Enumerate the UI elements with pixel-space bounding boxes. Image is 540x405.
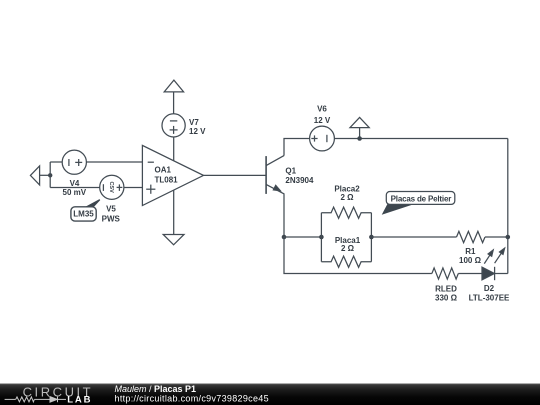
- voltage source V6 12 V: [310, 104, 335, 150]
- svg-text:50 mV: 50 mV: [63, 188, 87, 197]
- wire block to R1: [371, 236, 456, 238]
- resistor R1 100 Ohm: [457, 231, 486, 265]
- svg-text:LM35: LM35: [73, 210, 94, 219]
- svg-text:V7: V7: [189, 118, 199, 127]
- svg-text:TL081: TL081: [155, 175, 179, 184]
- svg-text:330 Ω: 330 Ω: [435, 293, 458, 302]
- power flag VCC (top): [164, 80, 183, 92]
- svg-text:RLED: RLED: [435, 285, 457, 294]
- resistor RLED 330 Ohm: [432, 268, 458, 303]
- wire block right bracket: [370, 213, 372, 262]
- node A junction dot: [48, 173, 52, 177]
- voltage source V4 50 mV: [62, 150, 87, 197]
- voltage source V7 12 V: [162, 114, 206, 137]
- svg-text:Placas de Peltier: Placas de Peltier: [391, 194, 452, 203]
- wire V6 to right rail: [334, 138, 507, 140]
- wire vertical at node A: [49, 162, 51, 188]
- annotation LM35: [71, 200, 100, 221]
- resistor Placa2 2 Ohm: [321, 184, 371, 218]
- junction dot block left: [319, 235, 324, 240]
- logo schematic glyph: [5, 397, 66, 403]
- LED D2 LTL-307EE: [469, 248, 510, 302]
- svg-text:OA1: OA1: [155, 165, 172, 174]
- svg-text:CSV: CSV: [108, 181, 114, 193]
- svg-text:12 V: 12 V: [314, 116, 331, 125]
- wire op-amp V- pin to ground: [173, 190, 175, 234]
- svg-text:Q1: Q1: [285, 166, 296, 175]
- svg-text:100 Ω: 100 Ω: [459, 256, 482, 265]
- svg-text:2 Ω: 2 Ω: [340, 193, 354, 202]
- svg-text:D2: D2: [484, 284, 495, 293]
- svg-text:2N3904: 2N3904: [285, 176, 314, 185]
- power flag VCC (near V6): [350, 117, 369, 138]
- svg-text:2 Ω: 2 Ω: [341, 244, 355, 253]
- svg-text:V6: V6: [317, 104, 327, 113]
- resistor Placa1 2 Ohm: [321, 236, 371, 267]
- svg-text:PWS: PWS: [102, 215, 121, 224]
- footer bar: [0, 384, 540, 405]
- wire Q1 emitter down: [283, 194, 285, 237]
- svg-text:LTL-307EE: LTL-307EE: [469, 293, 510, 302]
- logo LAB text: [67, 395, 92, 405]
- wire emitter node to Peltier block: [284, 236, 321, 238]
- voltage source V5 PWS: [100, 175, 124, 223]
- svg-text:V4: V4: [70, 179, 80, 188]
- wire node A to V5: [50, 187, 100, 189]
- wire R1 to right rail: [485, 236, 508, 238]
- op-amp OA1 TL081: [142, 145, 203, 205]
- wire bottom from emitter node: [284, 237, 432, 274]
- wire ground to node A: [40, 174, 51, 176]
- ground GND1 (left, rotated): [30, 166, 39, 185]
- annotation Placas de Peltier: [383, 192, 455, 214]
- ground GND2 (below op-amp): [163, 235, 184, 245]
- junction dot right rail: [506, 235, 511, 240]
- wire V7 to power flag: [173, 92, 175, 114]
- svg-text:http://circuitlab.com/c9v73982: http://circuitlab.com/c9v739829ce45: [115, 394, 269, 404]
- wire D2 to right rail: [495, 273, 508, 275]
- svg-text:LAB: LAB: [67, 395, 92, 405]
- svg-text:12 V: 12 V: [189, 127, 206, 136]
- transistor Q1 2N3904: [266, 156, 314, 195]
- svg-text:Maulem / Placas P1: Maulem / Placas P1: [115, 384, 197, 394]
- footer url text: [115, 394, 269, 404]
- wire right rail vertical: [507, 139, 509, 274]
- junction dot block right: [369, 235, 374, 240]
- wire RLED to D2: [458, 273, 482, 275]
- wire block left bracket: [320, 213, 322, 262]
- wire Q1 collector to V6: [284, 139, 310, 156]
- wire node A to V4: [50, 161, 62, 163]
- wire V4 to op-amp inverting input: [86, 161, 142, 163]
- footer title text: [115, 384, 197, 394]
- junction dot power flag: [357, 136, 362, 141]
- svg-text:V5: V5: [106, 205, 116, 214]
- wire op-amp output to Q1 base: [204, 174, 267, 176]
- junction dot emitter node: [282, 235, 287, 240]
- wire op-amp V+ pin to V7: [173, 137, 175, 161]
- logo CIRCUIT text: [23, 384, 94, 399]
- svg-text:R1: R1: [465, 247, 476, 256]
- wire V5 to op-amp non-inverting input: [124, 187, 143, 189]
